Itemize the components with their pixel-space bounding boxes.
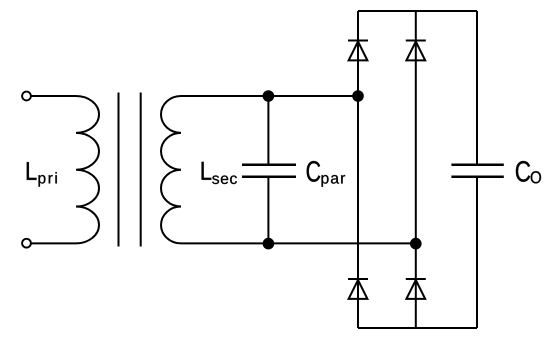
label Co: letter C [516, 161, 530, 182]
label Cpar: subscript par [322, 175, 346, 187]
node dot secondary top / Cpar [263, 90, 275, 102]
terminal P1 (primary top) [22, 92, 31, 101]
label Lpri: subscript pri [39, 172, 57, 186]
bridge right branch bottom (from Co) [476, 177, 478, 328]
node dot bridge left input [352, 90, 364, 102]
diode D1 bar [348, 40, 368, 42]
diode D3 bar [348, 278, 368, 280]
wire secondary top [181, 95, 358, 97]
diode D4 triangle [406, 280, 425, 299]
capacitor Cpar lead top [267, 96, 269, 165]
bridge right branch top (to Co) [476, 11, 478, 165]
label Lsec: letter L [202, 162, 212, 180]
capacitor Cpar plate top [242, 164, 296, 167]
inductor Lpri winding [76, 96, 99, 243]
capacitor Cpar lead bottom [267, 177, 269, 244]
transformer core line 1 [118, 93, 120, 247]
capacitor Co plate top [451, 164, 503, 167]
label Co: subscript O [531, 171, 541, 183]
wire secondary bottom [181, 242, 416, 244]
diode D2 triangle [406, 42, 425, 61]
diode D4 bar [406, 278, 426, 280]
transformer core line 2 [140, 93, 142, 247]
bridge bottom rail [358, 327, 477, 329]
label Cpar: letter C [307, 161, 321, 182]
inductor Lsec winding [161, 96, 181, 243]
bridge left branch [357, 11, 359, 328]
capacitor Cpar plate bottom [242, 175, 296, 178]
node dot secondary bottom / Cpar [263, 238, 275, 250]
bridge middle branch [415, 11, 417, 328]
label Lpri: letter L [27, 162, 37, 180]
wire primary bottom [31, 242, 76, 244]
node dot bridge middle input [410, 238, 422, 250]
wire primary top [31, 95, 76, 97]
diode D3 triangle [349, 280, 368, 299]
diode D2 bar [406, 40, 426, 42]
diode D1 triangle [349, 42, 368, 61]
bridge top rail [358, 10, 477, 12]
label Lsec: subscript sec [212, 175, 237, 184]
capacitor Co plate bottom [451, 175, 503, 178]
terminal P2 (primary bottom) [22, 239, 31, 248]
